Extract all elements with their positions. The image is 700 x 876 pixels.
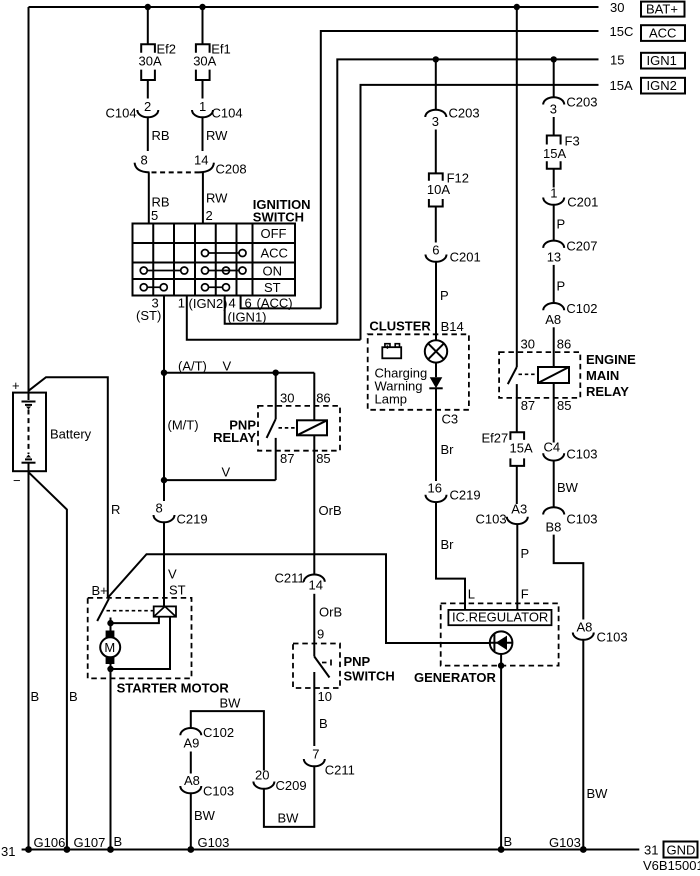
node starter motor bottom junction <box>107 666 113 672</box>
node junction IGN1/F12 <box>433 56 439 62</box>
svg-text:P: P <box>557 217 566 232</box>
svg-text:F: F <box>521 587 529 602</box>
generator rotor symbol <box>490 631 513 654</box>
svg-text:3: 3 <box>432 114 439 129</box>
svg-text:B+: B+ <box>92 583 108 598</box>
svg-text:BW: BW <box>194 808 216 823</box>
wire bus 30 BAT+ <box>29 6 599 8</box>
node ground starter <box>107 846 114 853</box>
terminal box IGN1 <box>641 53 685 69</box>
svg-text:RELAY: RELAY <box>213 430 256 445</box>
svg-text:C104: C104 <box>106 106 137 121</box>
wire P C201 to C207 <box>553 205 555 241</box>
fuse Ef1 30A <box>196 44 210 53</box>
svg-text:16: 16 <box>428 481 442 496</box>
relay K1 coil <box>297 420 327 435</box>
wire ground bus 31 <box>22 849 640 851</box>
wire RB C104 to C208 <box>147 117 149 151</box>
node V junction M/T <box>161 477 167 483</box>
svg-text:1: 1 <box>178 295 185 310</box>
svg-text:15C: 15C <box>610 24 634 39</box>
svg-text:M: M <box>104 640 115 655</box>
svg-text:Br: Br <box>441 537 455 552</box>
battery BT1 box <box>13 393 46 472</box>
wire F12 to C201 pin6 <box>435 207 437 243</box>
svg-text:C103: C103 <box>597 630 628 645</box>
wire bus 15A IGN2 <box>361 85 599 340</box>
starter switch blade <box>97 599 109 621</box>
svg-text:C209: C209 <box>276 778 307 793</box>
svg-text:10A: 10A <box>427 182 450 197</box>
svg-text:RB: RB <box>152 128 170 143</box>
svg-text:V6B15001: V6B15001 <box>643 858 700 873</box>
svg-text:15A: 15A <box>510 441 533 456</box>
motor M armature <box>100 637 120 657</box>
fuse Ef2 30A <box>141 44 155 53</box>
svg-text:B14: B14 <box>441 319 464 334</box>
svg-text:9: 9 <box>317 627 324 642</box>
wire Ef27 to C103 A3 <box>516 466 518 504</box>
wire C203 to F12 <box>435 130 437 174</box>
svg-text:30A: 30A <box>139 54 162 69</box>
wire IGN1 to C203 pin3 left <box>435 59 437 110</box>
svg-text:2: 2 <box>144 99 151 114</box>
svg-text:B: B <box>31 689 40 704</box>
svg-text:87: 87 <box>280 451 294 466</box>
wire C209 to BW horizontal <box>191 711 264 770</box>
svg-text:30A: 30A <box>193 54 216 69</box>
wire BAT+ bus down to battery <box>28 7 30 400</box>
wire BAT+ to fuse Ef2 <box>147 7 149 44</box>
wire BW A8 to ground G103 <box>190 793 192 849</box>
svg-text:V: V <box>223 358 232 373</box>
wire solenoid right pin <box>111 617 171 669</box>
wire bus 15C ACC <box>321 31 599 308</box>
wire C203 to F3 <box>553 117 555 136</box>
svg-text:85: 85 <box>316 451 330 466</box>
svg-text:15: 15 <box>610 53 624 68</box>
svg-text:OrB: OrB <box>319 503 342 518</box>
battery internal plates top <box>22 401 36 403</box>
generator G1 box <box>441 603 559 665</box>
connector C102 pin A9 <box>180 728 201 735</box>
svg-text:C3: C3 <box>442 412 459 427</box>
ignition switch table frame <box>133 224 296 296</box>
terminal box IGN2 <box>641 78 685 94</box>
svg-text:86: 86 <box>557 337 571 352</box>
wire bus 15 IGN1 <box>337 59 598 323</box>
svg-text:31: 31 <box>1 844 15 859</box>
wire A/T horizontal V <box>164 372 314 374</box>
battery icon in cluster <box>382 347 401 358</box>
terminal box BAT+ <box>641 2 685 17</box>
motor M brush bottom <box>106 657 115 664</box>
wire C208 dashed mate <box>152 171 200 173</box>
battery internal dashed cell <box>28 410 30 455</box>
ignition switch ACC row contacts <box>202 250 247 257</box>
connector C103 pin B8 <box>543 507 564 514</box>
svg-text:ST: ST <box>169 583 186 598</box>
svg-text:87: 87 <box>521 398 535 413</box>
wire PNP relay pin 87 <box>275 438 277 480</box>
svg-text:13: 13 <box>547 250 561 265</box>
wire to PNP relay pin 30 <box>275 373 277 419</box>
svg-text:V: V <box>222 464 231 479</box>
wire PNP switch pin 10 <box>313 672 315 746</box>
wire switch pin1 to IGN2 bus <box>187 296 361 340</box>
svg-text:IGN1: IGN1 <box>647 53 677 68</box>
wire F3 to C201 pin1 <box>553 169 555 188</box>
wire B+ node diagonal to generator line <box>108 554 490 643</box>
relay K2 switch blade <box>508 367 517 384</box>
node ground G106 <box>25 846 32 853</box>
svg-text:10: 10 <box>318 689 332 704</box>
wire BAT+ to engine relay pin 30 <box>516 7 518 367</box>
connector C203 pin 3 right <box>543 97 564 104</box>
wire engine relay pin 85 <box>553 383 555 443</box>
svg-text:C103: C103 <box>566 512 597 527</box>
battery internal plates bottom <box>26 455 31 458</box>
starter solenoid box <box>154 606 176 616</box>
svg-text:B: B <box>319 716 328 731</box>
wire battery minus diagonal to G107 line <box>29 472 67 849</box>
svg-text:STARTER MOTOR: STARTER MOTOR <box>117 681 230 696</box>
svg-text:G103: G103 <box>549 835 581 850</box>
svg-text:A8: A8 <box>577 620 593 635</box>
svg-text:B: B <box>114 834 123 849</box>
svg-text:B: B <box>504 834 513 849</box>
svg-text:Lamp: Lamp <box>375 392 408 407</box>
svg-text:CLUSTER: CLUSTER <box>369 319 431 334</box>
node ground G107 <box>64 846 71 853</box>
svg-text:C208: C208 <box>216 162 247 177</box>
wire BW C4 to B8 <box>553 461 555 508</box>
node generator ground junction <box>498 662 504 668</box>
node junction BAT+/Ef1 <box>199 4 205 10</box>
svg-text:8: 8 <box>156 501 163 516</box>
svg-text:C211: C211 <box>325 763 355 778</box>
svg-text:C211: C211 <box>275 571 305 586</box>
terminal box GND <box>664 842 698 858</box>
svg-text:C201: C201 <box>567 195 598 210</box>
svg-text:7: 7 <box>312 747 319 762</box>
wire switch pin6 to ACC bus <box>241 296 321 309</box>
svg-text:C104: C104 <box>212 106 243 121</box>
svg-text:C219: C219 <box>450 488 481 503</box>
svg-text:L: L <box>468 587 475 602</box>
svg-text:31: 31 <box>644 843 658 858</box>
node PNP relay 30 junction <box>273 370 279 376</box>
wire switch pin4 to IGN1 bus <box>225 296 338 324</box>
svg-text:C103: C103 <box>476 512 507 527</box>
svg-text:P: P <box>521 546 530 561</box>
svg-text:Ef27: Ef27 <box>482 431 509 446</box>
connector C102 pin A8 <box>543 303 564 310</box>
svg-text:BW: BW <box>557 480 579 495</box>
svg-text:C103: C103 <box>566 447 597 462</box>
motor M brush top <box>110 623 112 630</box>
wire BAT+ to fuse Ef1 <box>202 7 204 44</box>
svg-text:BAT+: BAT+ <box>646 2 678 17</box>
svg-text:V: V <box>168 567 177 582</box>
wire A9 to A8 <box>190 752 192 774</box>
svg-text:C203: C203 <box>566 95 597 110</box>
wire V to starter ST <box>163 522 165 606</box>
svg-text:(ST): (ST) <box>136 308 161 323</box>
svg-text:Br: Br <box>441 442 455 457</box>
terminal box ACC <box>641 25 685 41</box>
ignition switch ST row contacts <box>140 284 229 291</box>
svg-text:1: 1 <box>199 99 206 114</box>
svg-text:IC.REGULATOR: IC.REGULATOR <box>452 610 548 625</box>
svg-text:20: 20 <box>255 768 269 783</box>
wire ST line down to C219 <box>163 373 165 501</box>
svg-text:C219: C219 <box>177 512 208 527</box>
lamp L1 charging warning lamp <box>425 340 447 362</box>
svg-text:B8: B8 <box>546 520 562 535</box>
svg-text:5: 5 <box>151 208 158 223</box>
node starter motor top junction <box>107 620 113 626</box>
svg-text:6: 6 <box>432 243 439 258</box>
relay K1 PNP RELAY box <box>258 406 340 451</box>
wire A8 to relay 86 <box>553 327 555 367</box>
svg-text:86: 86 <box>316 390 330 405</box>
node junction IGN1/F3 <box>551 56 557 62</box>
svg-text:OFF: OFF <box>261 226 287 241</box>
svg-text:(M/T): (M/T) <box>168 418 199 433</box>
svg-text:2: 2 <box>206 208 213 223</box>
svg-text:30: 30 <box>610 0 624 15</box>
svg-text:P: P <box>557 279 566 294</box>
svg-text:+: + <box>12 378 20 393</box>
starter mechanical link <box>107 610 154 612</box>
relay K2 mechanical link <box>519 373 538 375</box>
svg-text:30: 30 <box>521 337 535 352</box>
fuse Ef27 15A <box>510 432 524 440</box>
svg-text:ENGINE: ENGINE <box>586 352 636 367</box>
svg-text:P: P <box>440 288 449 303</box>
wire battery plus to R line <box>29 377 108 597</box>
svg-text:−: − <box>13 473 21 488</box>
relay K2 coil <box>538 367 569 383</box>
wire switch pin3 ST down <box>163 296 165 373</box>
wire diode out C3 <box>435 388 437 481</box>
svg-text:14: 14 <box>194 153 208 168</box>
wire battery minus down to ground <box>28 463 30 850</box>
svg-text:RELAY: RELAY <box>586 384 629 399</box>
svg-text:IGN2: IGN2 <box>647 78 677 93</box>
svg-text:G103: G103 <box>198 835 230 850</box>
svg-text:G107: G107 <box>74 835 106 850</box>
svg-text:30: 30 <box>280 390 294 405</box>
wire BW A8 to ground <box>582 640 584 850</box>
svg-text:C203: C203 <box>449 106 480 121</box>
wire B8 to A8 jog <box>554 535 584 620</box>
node junction BAT+/Ef2 <box>145 4 151 10</box>
starter motor M1 box <box>88 598 192 679</box>
fuse F3 15A <box>547 136 561 145</box>
starter switch fixed contact <box>110 618 112 624</box>
svg-text:15A: 15A <box>610 78 633 93</box>
svg-text:GENERATOR: GENERATOR <box>414 670 496 685</box>
diode D1 <box>430 377 443 388</box>
svg-text:GND: GND <box>667 843 696 858</box>
svg-text:C103: C103 <box>203 784 234 799</box>
svg-text:OrB: OrB <box>319 605 342 620</box>
relay K1 switch blade <box>267 419 276 438</box>
svg-text:MAIN: MAIN <box>586 368 619 383</box>
node A/T junction <box>161 370 167 376</box>
svg-text:A3: A3 <box>511 502 527 517</box>
svg-text:B: B <box>69 689 78 704</box>
wire V bottom horizontal <box>164 479 276 481</box>
svg-text:SWITCH: SWITCH <box>344 669 395 684</box>
svg-text:A8: A8 <box>184 773 200 788</box>
PNP switch contact marks <box>322 662 327 664</box>
IC regulator U1 box <box>448 610 551 625</box>
wire lamp to diode <box>435 363 437 378</box>
svg-text:A9: A9 <box>184 736 200 751</box>
node ground generator B <box>498 846 505 853</box>
svg-text:Battery: Battery <box>50 427 92 442</box>
svg-text:BW: BW <box>220 696 242 711</box>
svg-text:G106: G106 <box>34 835 66 850</box>
wire solenoid left pin <box>111 617 159 623</box>
wire RW C104 to C208 <box>202 117 204 151</box>
svg-text:C102: C102 <box>203 725 234 740</box>
wire to PNP relay pin 86 <box>313 373 315 421</box>
wire generator B to ground <box>500 654 502 850</box>
wire RB C208 to switch pin 5 <box>148 172 150 223</box>
svg-text:A8: A8 <box>545 312 561 327</box>
svg-text:85: 85 <box>557 398 571 413</box>
svg-text:ACC: ACC <box>649 26 676 41</box>
svg-text:ON: ON <box>263 263 283 278</box>
svg-text:F3: F3 <box>565 134 580 149</box>
wire OrB C211 to PNP switch <box>313 594 315 657</box>
svg-text:15A: 15A <box>543 146 566 161</box>
PNP switch blade <box>314 657 329 678</box>
wire Ef2 to C104 <box>147 80 149 99</box>
connector C209 pin 20 <box>253 782 274 789</box>
wire P from C201-6 to lamp B14 <box>435 262 437 341</box>
relay K2 ENGINE MAIN RELAY box <box>499 352 580 398</box>
svg-text:8: 8 <box>141 153 148 168</box>
svg-text:(IGN2): (IGN2) <box>189 296 228 311</box>
switch S2 PNP SWITCH box <box>293 644 340 689</box>
svg-text:C207: C207 <box>566 239 597 254</box>
connector C207 pin 13 <box>543 241 564 248</box>
wire IGN1 to C203 pin3 right <box>553 59 555 97</box>
wire PNP relay pin 85 OrB <box>313 435 315 574</box>
svg-text:RW: RW <box>206 128 228 143</box>
svg-text:14: 14 <box>309 578 323 593</box>
svg-text:(IGN1): (IGN1) <box>228 309 267 324</box>
wire P C207 to C102 <box>553 265 555 303</box>
wire Br to L <box>436 502 465 610</box>
svg-text:PNP: PNP <box>344 654 371 669</box>
svg-text:R: R <box>111 502 120 517</box>
svg-text:4: 4 <box>229 295 236 310</box>
connector C203 pin 3 left <box>425 110 446 117</box>
relay K1 mechanical link <box>279 427 297 429</box>
wire RW C208 to switch pin 2 <box>202 172 204 223</box>
fuse F12 10A <box>429 173 443 180</box>
svg-text:3: 3 <box>550 102 557 117</box>
svg-text:1: 1 <box>550 186 557 201</box>
wire engine relay pin 87 to Ef27 <box>516 384 518 432</box>
node junction BAT+/relay30 <box>514 4 520 10</box>
node ground G103 left <box>187 846 194 853</box>
wire P A3 to regulator F <box>516 524 518 610</box>
svg-text:ST: ST <box>264 280 281 295</box>
wire starter motor to ground <box>110 669 112 850</box>
svg-text:SWITCH: SWITCH <box>253 210 304 225</box>
svg-text:C201: C201 <box>450 250 481 265</box>
svg-text:C102: C102 <box>566 301 597 316</box>
svg-text:BW: BW <box>278 811 300 826</box>
svg-text:ACC: ACC <box>261 246 288 261</box>
wire C211-7 to C209 route <box>264 766 314 827</box>
svg-text:RW: RW <box>206 191 228 206</box>
svg-text:BW: BW <box>587 786 609 801</box>
svg-text:(A/T): (A/T) <box>178 358 207 373</box>
wire Ef1 to C104 <box>202 80 204 99</box>
ignition switch ON row contacts <box>140 267 246 274</box>
svg-text:C4: C4 <box>544 440 561 455</box>
node ground G103 right <box>580 846 587 853</box>
